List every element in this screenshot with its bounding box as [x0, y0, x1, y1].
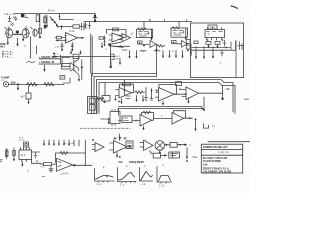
- wire U10 out: [154, 118, 173, 120]
- double rule mid: [119, 107, 203, 109]
- svg-text:.7.: .7.: [219, 62, 222, 65]
- feedback loop U5b: [159, 85, 177, 95]
- node dot U5b in: [156, 91, 158, 93]
- op-amp U11: [172, 113, 184, 125]
- svg-text:..: ..: [46, 80, 48, 83]
- wire right column: [46, 15, 48, 27]
- filter box U5 frame: [191, 23, 244, 78]
- G1 inner marks: [139, 32, 149, 37]
- rule corner left: [118, 108, 120, 115]
- svg-text:.1.k: .1.k: [141, 183, 146, 186]
- resistor R19 squiggle: [97, 98, 105, 101]
- svg-text:o.a 4.6: o.a 4.6: [60, 172, 69, 175]
- wire U8b out arrow: [127, 146, 130, 148]
- box B10: [169, 152, 180, 158]
- wire bus lower: [124, 80, 126, 95]
- wire G2 right drop: [185, 28, 187, 39]
- pins NE572: [207, 28, 222, 41]
- wires up to U1b: [109, 42, 123, 47]
- diode chain D2: [50, 17, 58, 28]
- node Q2 emitter: [22, 38, 24, 41]
- wire from jack: [9, 84, 64, 86]
- op-amp U10: [140, 115, 152, 127]
- graph box W1: [95, 169, 115, 182]
- wire top bus: [15, 13, 95, 15]
- feedback loop U10: [142, 113, 154, 121]
- VCA circle X1: [155, 141, 165, 151]
- wire T1 down: [150, 151, 154, 154]
- left edge parts: [186, 40, 190, 44]
- op-amp U5b: [159, 88, 175, 102]
- component box B4: [102, 96, 110, 102]
- resistor R2: [44, 15, 46, 28]
- node junction: [17, 83, 19, 85]
- node dot right: [115, 99, 117, 101]
- pins U6: [112, 110, 118, 126]
- resistor R26b: [13, 148, 15, 160]
- wire into U8b top: [119, 134, 121, 141]
- wire rail to G1: [143, 22, 145, 29]
- capacitor C8 on wire: [11, 82, 16, 85]
- wire top step-down: [94, 14, 96, 23]
- caps above U8b: [114, 137, 127, 140]
- op-amp U8b: [114, 141, 128, 154]
- transistor Q5: [182, 41, 188, 48]
- feedback loop U4: [120, 84, 134, 93]
- arrow down signal: [44, 65, 46, 70]
- graph box W4: [157, 167, 172, 183]
- wire U1b feedback: [107, 30, 127, 38]
- resistor R7 to gnd: [71, 43, 73, 51]
- svg-text:.1 .k: .1 .k: [96, 183, 102, 186]
- wires right of U9: [32, 151, 40, 153]
- node dots U6: [108, 119, 110, 121]
- transistor Q1: [6, 29, 13, 38]
- resistor R10 zigzag: [138, 28, 147, 31]
- svg-text:+.5: +.5: [40, 166, 44, 169]
- op-amp U1a: [66, 33, 78, 44]
- svg-text:.es.t: .es.t: [115, 58, 120, 61]
- cluster box B6: [126, 141, 133, 149]
- resistor R4: [73, 25, 80, 28]
- resistor R18 box: [26, 93, 31, 99]
- node in: [61, 26, 63, 28]
- node cluster G1: [139, 42, 141, 44]
- svg-text:2.f: 2.f: [212, 125, 215, 128]
- svg-text:.9.: .9.: [24, 45, 27, 48]
- resistor R2b box: [36, 15, 39, 22]
- wire bottom right: [208, 141, 250, 143]
- arrow gnd right: [195, 119, 197, 130]
- bus corner 4: [99, 83, 235, 114]
- svg-text:A:B: A:B: [203, 163, 208, 167]
- transistor Q4: [150, 41, 156, 48]
- svg-text:4k7: 4k7: [21, 96, 26, 99]
- node row in box: [195, 47, 197, 49]
- component box B1 on rail: [73, 54, 79, 58]
- wire mid rail: [52, 55, 115, 57]
- wire stage2 tap down: [190, 44, 192, 56]
- right col parts: [231, 42, 236, 49]
- svg-text:C = s. ...: C = s. ...: [2, 54, 12, 58]
- wire U1b node column: [110, 44, 112, 66]
- op-amp T1: [144, 140, 153, 150]
- svg-text:A,B,L,+15: A,B,L,+15: [4, 13, 16, 16]
- op-amp U8a: [95, 143, 104, 152]
- node cluster G2: [173, 42, 175, 44]
- node vertical 2: [151, 89, 153, 99]
- svg-text:CALENDAR .976 01.RD: CALENDAR .976 01.RD: [203, 169, 232, 173]
- marks near bus: [126, 96, 130, 99]
- wire U1a out: [78, 37, 85, 39]
- wire U7 out: [73, 164, 93, 166]
- ground arrow R18: [28, 99, 30, 103]
- capacitor C10 lower input: [49, 166, 53, 172]
- op-amp U7: [57, 158, 73, 171]
- wire stage tap down: [156, 44, 158, 77]
- wire emitter down: [75, 71, 80, 81]
- wire U3 out: [199, 92, 223, 94]
- wire U3 out down: [203, 97, 205, 111]
- dashed gnd rail: [80, 127, 130, 129]
- op-amp U3: [186, 87, 199, 100]
- switch S1b: [89, 105, 95, 111]
- svg-text:.1 1.k: .1 1.k: [158, 185, 165, 188]
- svg-text:.uF: .uF: [226, 88, 230, 91]
- node dots under U8: [119, 156, 121, 158]
- inner block NE572: [205, 30, 225, 38]
- ground caps row mid: [137, 96, 144, 101]
- resistor R15: [215, 42, 220, 45]
- ground arrow Q1 emitter: [7, 37, 9, 43]
- svg-text:.1 .k: .1 .k: [119, 184, 125, 187]
- resistor R21 zigzag: [135, 91, 145, 94]
- dot pins under NE572: [207, 39, 209, 41]
- feedback loop U7: [56, 153, 86, 166]
- svg-text:+.5: +.5: [55, 46, 59, 49]
- resistor row above U9: [44, 140, 79, 146]
- svg-text:m.opl. dn.: m.opl. dn.: [218, 151, 230, 154]
- svg-text:o.t: o.t: [2, 79, 5, 82]
- capacitor C2 on rail: [84, 22, 87, 28]
- wire bus step: [60, 14, 74, 20]
- svg-text:IN.1: IN.1: [0, 45, 5, 49]
- wire drop arrow: [186, 148, 188, 159]
- inner divider: [235, 40, 237, 78]
- svg-text:tr. s.: tr. s.: [20, 139, 25, 142]
- ground arrow under U9: [21, 162, 23, 166]
- svg-text:AMERICAN DBL.KIT: AMERICAN DBL.KIT: [203, 145, 228, 149]
- switch S1a: [89, 98, 95, 103]
- bias box B3: [62, 58, 70, 67]
- trimpot P1: [24, 142, 29, 147]
- component B5: [34, 152, 37, 158]
- wire row links: [119, 120, 141, 122]
- box B9: [153, 153, 160, 158]
- op-amp U4: [119, 88, 132, 99]
- wire drop x85: [84, 140, 86, 153]
- capacitor C7: [221, 50, 224, 56]
- corner wire: [63, 78, 70, 83]
- diode D1: [14, 17, 18, 21]
- svg-text:..: ..: [28, 80, 30, 83]
- ground arrow center: [17, 38, 19, 45]
- wire inside box: [191, 49, 236, 51]
- resistor R23 feedback box: [176, 82, 182, 86]
- wire collector stubs: [9, 27, 26, 29]
- svg-text:-..-..: -..-..: [11, 45, 16, 48]
- wire G1 right drop: [151, 29, 153, 39]
- resistor R27 on loop: [60, 152, 68, 155]
- node base tap: [16, 31, 18, 34]
- wire long top rail: [84, 21, 192, 23]
- mark right edge: [245, 98, 249, 100]
- bus corner 1: [92, 74, 157, 114]
- ground leg U8b: [116, 153, 118, 157]
- wire U1b out down: [119, 59, 121, 64]
- resistor R9 feedback: [113, 28, 119, 31]
- capacitor C0: [11, 23, 15, 27]
- resistor R11: [157, 45, 165, 47]
- wire U5b out: [174, 93, 186, 95]
- wire drop from Q area: [29, 37, 31, 59]
- wire base link: [13, 33, 23, 35]
- gain cell G2 box: [171, 28, 188, 37]
- title block frame: [201, 144, 242, 173]
- feedback loop U11: [174, 111, 186, 119]
- wire under stages: [122, 49, 160, 52]
- resistor R17 squiggle: [44, 83, 54, 86]
- svg-text:..: ..: [55, 10, 57, 13]
- svg-text:TO.ER STOWE.: TO.ER STOWE.: [203, 159, 222, 163]
- ground leg U5b: [162, 101, 164, 104]
- jack J2: [3, 82, 8, 87]
- IC U9 4136 box: [19, 150, 32, 160]
- bus corner 2: [94, 77, 157, 114]
- svg-text:FREQ.RESP: FREQ.RESP: [129, 160, 144, 164]
- ground arrow col: [101, 43, 103, 48]
- svg-text:x.: x.: [161, 115, 163, 118]
- ground legs stage1: [130, 51, 137, 58]
- ground leg U10: [143, 126, 145, 129]
- wire U11 out: [186, 117, 193, 119]
- svg-text:F.D.: F.D.: [119, 160, 124, 164]
- input arrow mid: [110, 62, 112, 67]
- title divider 1: [201, 148, 242, 150]
- label box Q pair: [60, 76, 65, 80]
- pins IC U9: [21, 148, 30, 162]
- switch S1 frame over bus: [88, 97, 98, 114]
- transistor Q6 pair: [73, 60, 75, 71]
- transistor Q2: [22, 29, 29, 38]
- op-amp U2a: [122, 34, 131, 42]
- component box B2: [62, 64, 71, 70]
- svg-text:x.: x.: [105, 48, 107, 51]
- graph box W3: [140, 168, 153, 182]
- resistor R30 on loop: [143, 111, 151, 114]
- arrows in box: [209, 45, 218, 48]
- resistor R13: [194, 41, 198, 44]
- node vertical: [145, 88, 147, 98]
- wire to box: [60, 55, 62, 64]
- resistor R16 squiggle: [27, 83, 37, 86]
- title divider 2: [201, 154, 242, 156]
- arrow right B8: [177, 144, 184, 146]
- resistor R26 left: [6, 149, 8, 159]
- G2 inner marks: [173, 31, 183, 36]
- wire stubs into T1: [140, 143, 144, 148]
- wire Q1 collector up: [5, 27, 33, 29]
- dash left of title: [194, 156, 197, 158]
- wire X1 down: [159, 150, 161, 153]
- arrows into pair: [71, 51, 81, 54]
- bus vertical pair from U1b: [91, 34, 93, 76]
- resistor R12 zigzag: [172, 27, 179, 29]
- resistor R8: [99, 37, 104, 39]
- trim box LEVEL: [110, 54, 114, 59]
- capacitor C3 on rail: [88, 22, 91, 29]
- ground legs in box: [196, 49, 213, 58]
- U5 inner marks: [207, 31, 223, 33]
- node bus tap: [104, 83, 106, 96]
- wire U9 out: [32, 160, 42, 164]
- resistor R31: [114, 45, 130, 47]
- IC U6 box pins top: [110, 112, 120, 124]
- wire rail to G2: [178, 22, 180, 28]
- small box above NE572: [208, 25, 217, 29]
- capacitor C6: [223, 40, 226, 46]
- resistor R6 to gnd: [61, 43, 63, 51]
- right edge parts: [238, 42, 244, 50]
- resistor R24: [135, 120, 137, 122]
- svg-text:IC1a: IC1a: [69, 30, 75, 33]
- node pair out: [81, 60, 83, 80]
- annotation squiggle: [27, 61, 36, 62]
- svg-text:w. ..w.rd: w. ..w.rd: [64, 142, 74, 145]
- graph box W2: [118, 168, 137, 182]
- bus corner 3: [97, 80, 234, 114]
- wire U1a lower in: [56, 40, 66, 42]
- arrow mid: [160, 154, 166, 156]
- resistor R1: [8, 16, 11, 22]
- rule end blob: [202, 108, 205, 110]
- resistor R5 input: [57, 36, 62, 39]
- wire drop to R18: [28, 86, 30, 93]
- ground leg U4: [121, 99, 123, 103]
- node X1 out: [165, 144, 167, 146]
- transistor Q7: [70, 63, 74, 71]
- gain cell G1 box: [137, 29, 153, 37]
- capacitor C4: [80, 23, 86, 30]
- component row box B11: [122, 116, 132, 123]
- pen mark top right: [231, 6, 238, 9]
- resistor R20 feedback: [123, 83, 131, 86]
- svg-text:41.6: 41.6: [21, 154, 27, 157]
- ground legs stage2: [163, 51, 183, 58]
- op-amp U1b: [112, 33, 124, 42]
- resistor R3: [39, 14, 41, 37]
- svg-text:..: ..: [171, 144, 173, 147]
- svg-text:.s..: .s..: [148, 19, 152, 22]
- transistor Q3: [33, 29, 37, 36]
- svg-text:.5..: .5..: [207, 33, 211, 36]
- resistor R14: [206, 42, 211, 45]
- resistor R28 input: [44, 163, 52, 166]
- capacitor C9 drop from bus: [222, 86, 224, 99]
- corner mark right: [204, 124, 209, 129]
- svg-text:..: ..: [60, 76, 62, 79]
- node stack: [104, 37, 106, 39]
- box B8: [170, 142, 177, 147]
- capacitor C1: [21, 14, 24, 17]
- mark left edge: [0, 160, 2, 162]
- ground leg U3: [188, 98, 190, 102]
- wire input row: [58, 26, 73, 28]
- stray mark: [42, 176, 45, 178]
- tick T1 on rail: [150, 19, 187, 21]
